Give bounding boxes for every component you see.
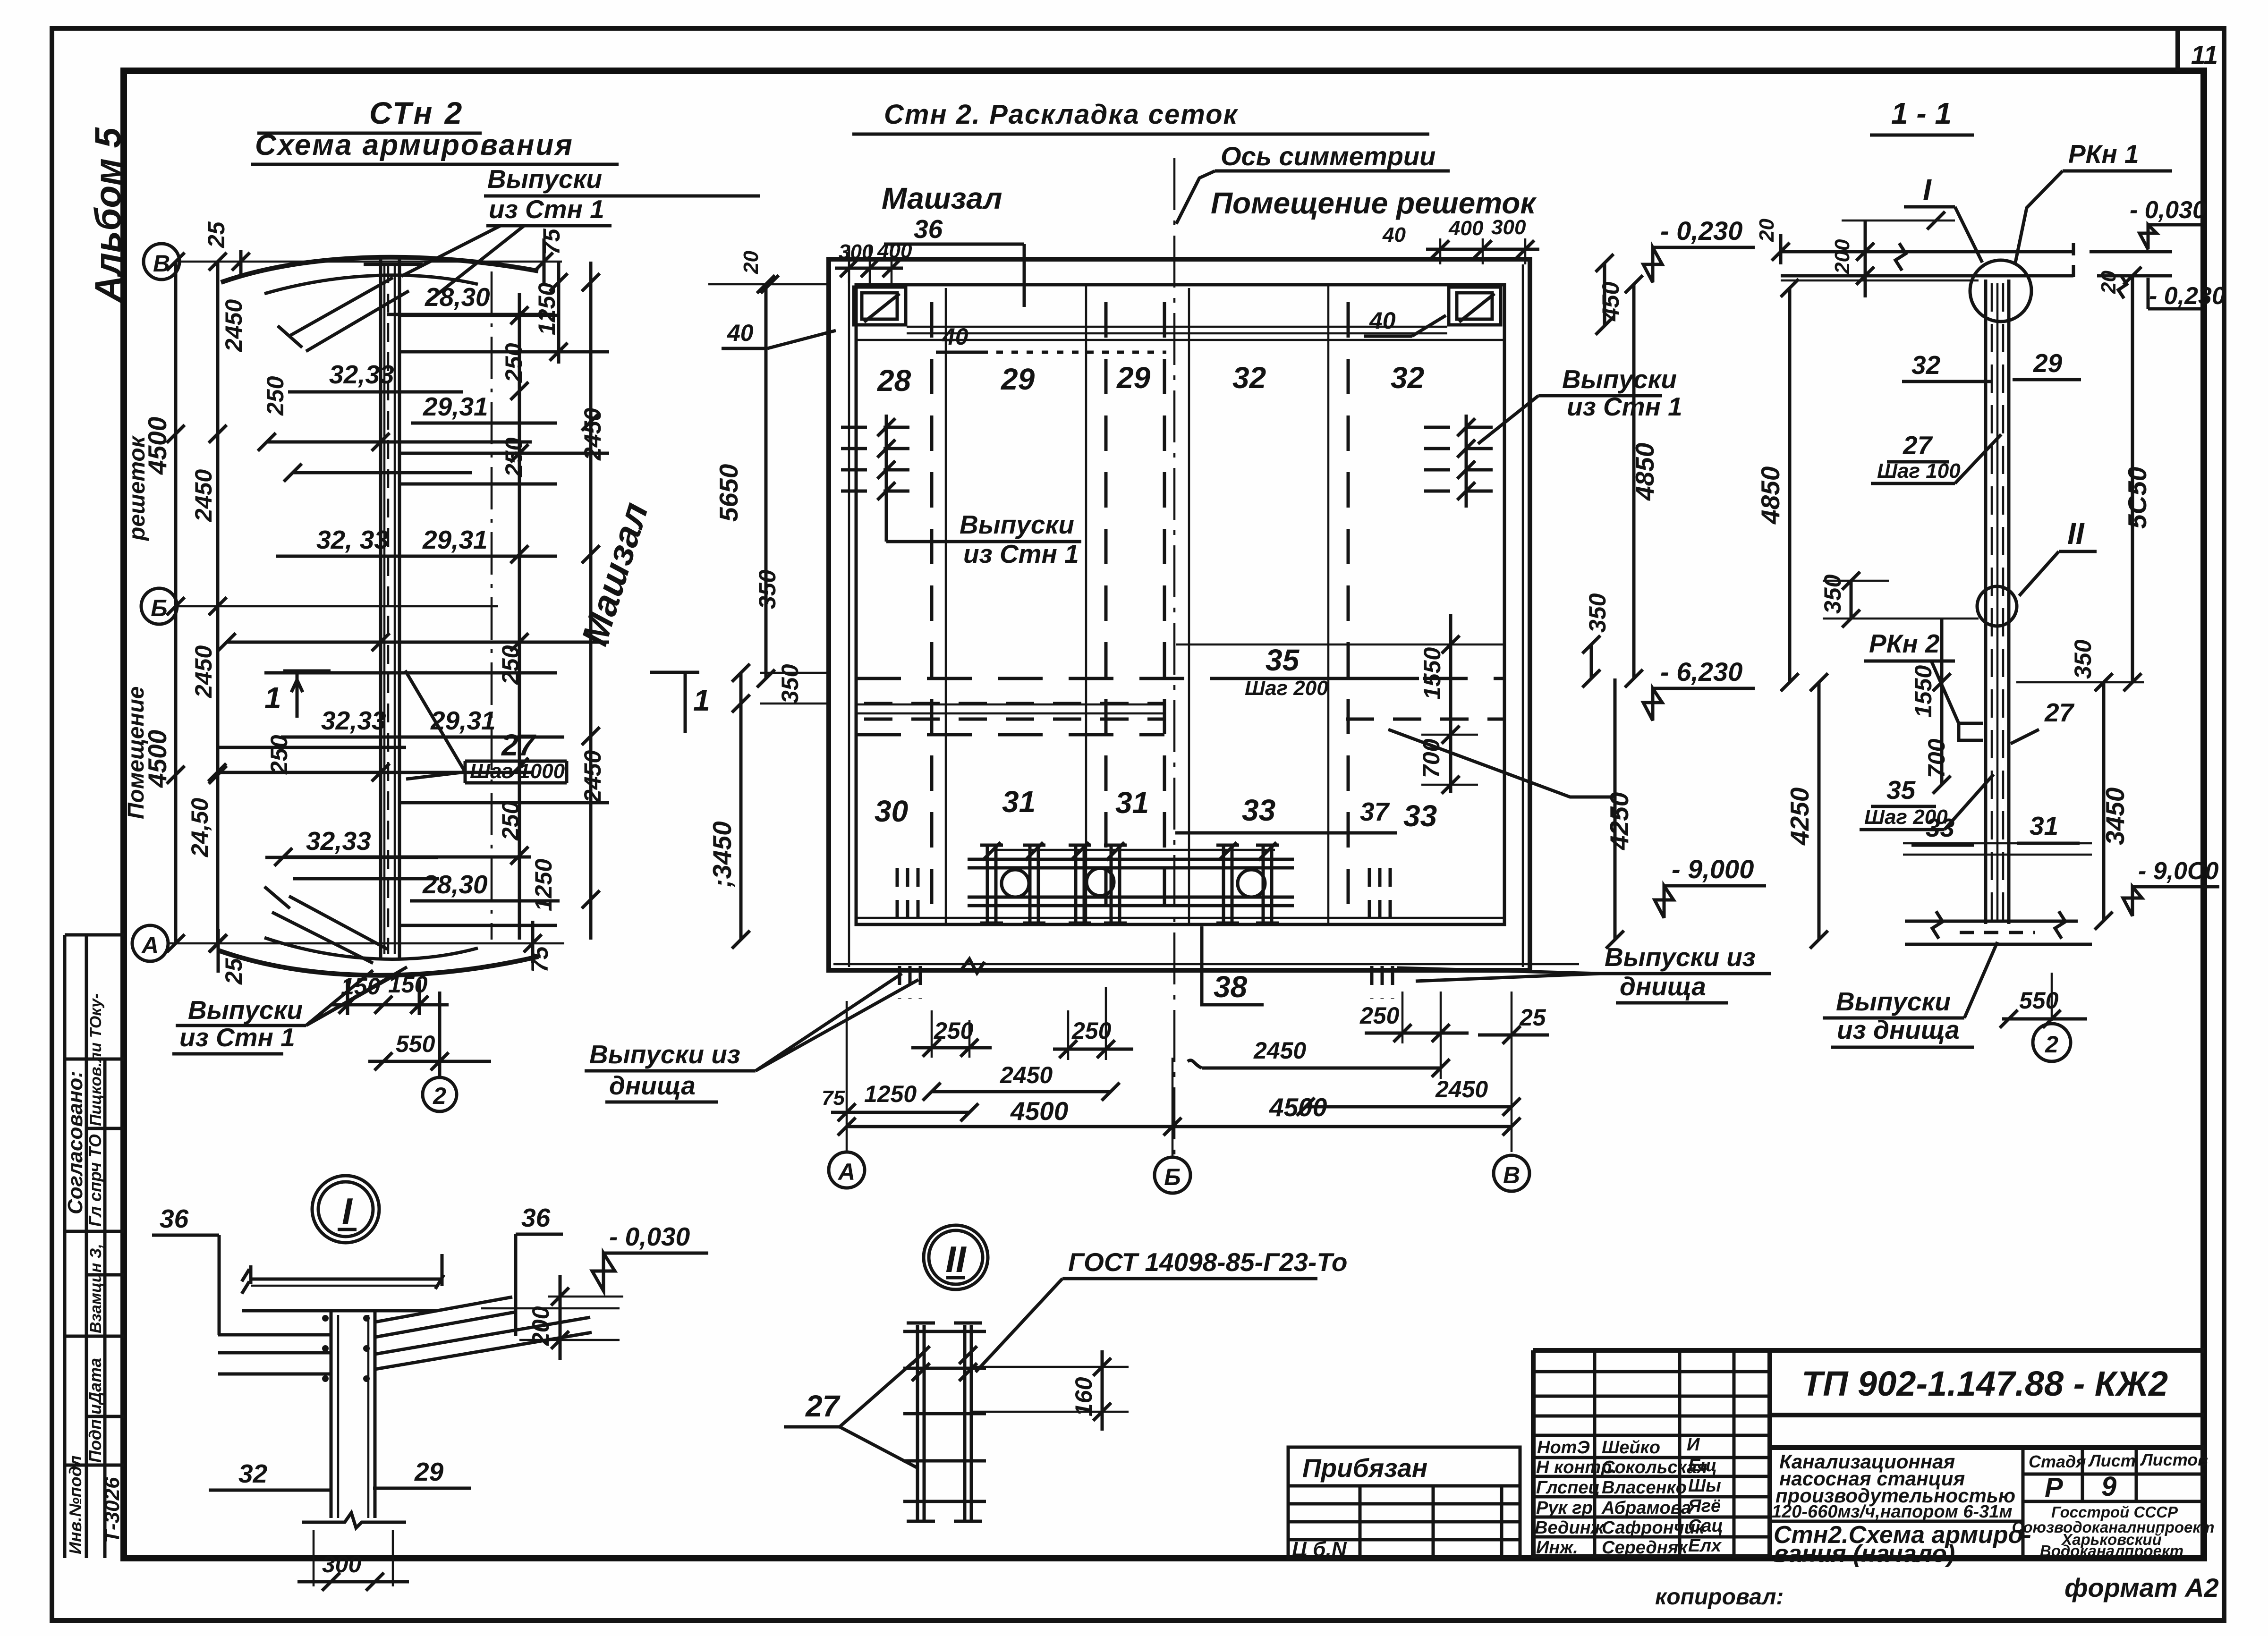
left dim chain 2450s	[187, 253, 247, 952]
svg-text:Инж.: Инж.	[1536, 1538, 1578, 1558]
right dim verticals	[519, 262, 591, 940]
svg-text:27: 27	[805, 1389, 841, 1423]
svg-text:Машзал: Машзал	[573, 498, 656, 650]
svg-text:- 9,000: - 9,000	[1672, 854, 1754, 884]
title plan view	[852, 99, 1429, 134]
svg-text:28: 28	[877, 364, 911, 398]
svg-text:9: 9	[2101, 1471, 2116, 1502]
svg-text:2450: 2450	[1435, 1076, 1488, 1102]
svg-text:25: 25	[1519, 1004, 1546, 1031]
svg-text:700: 700	[1923, 738, 1950, 778]
wall double line	[381, 257, 399, 958]
svg-text:I: I	[342, 1190, 353, 1232]
svg-text:Листов: Листов	[2140, 1450, 2208, 1469]
svg-text:Инв.№подл: Инв.№подл	[66, 1456, 85, 1554]
right chains	[1632, 284, 1636, 678]
center axis	[1173, 158, 1176, 1154]
1550 700 dims right inside	[1449, 614, 1453, 793]
signature table	[1595, 1350, 1734, 1558]
svg-text:вания (начало): вания (начало)	[1774, 1540, 1955, 1568]
stirrup pairs	[980, 845, 1279, 923]
svg-text:400: 400	[1448, 217, 1484, 240]
27 шаг 1000	[405, 670, 567, 783]
svg-text:Стн 2. Раскладка сеток: Стн 2. Раскладка сеток	[884, 99, 1239, 130]
svg-text:СТн 2: СТн 2	[369, 95, 464, 130]
svg-text:40: 40	[1369, 307, 1396, 334]
svg-text:35: 35	[1886, 775, 1916, 805]
break zigzag bottom	[961, 959, 985, 973]
svg-text:350: 350	[754, 569, 781, 609]
svg-text:2450: 2450	[1253, 1037, 1306, 1064]
svg-text:36: 36	[914, 214, 943, 244]
right-half interior wall line	[1176, 644, 1504, 646]
svg-text:копировал:: копировал:	[1655, 1585, 1784, 1610]
svg-text:4850: 4850	[1756, 466, 1785, 525]
svg-text:Власенко: Власенко	[1602, 1478, 1687, 1498]
svg-text:40: 40	[727, 320, 754, 346]
axis A circle	[132, 925, 168, 961]
privyazan table	[1288, 1447, 1520, 1561]
svg-text:Выпуски: Выпуски	[1836, 987, 1951, 1016]
svg-text:75: 75	[538, 228, 565, 255]
vypuski iz dnischa left	[585, 974, 918, 1102]
right slant haunch	[375, 1297, 592, 1369]
svg-text:4500: 4500	[1269, 1093, 1327, 1122]
svg-text:Рук гр: Рук гр	[1536, 1498, 1593, 1518]
svg-text:Ц б.N: Ц б.N	[1292, 1538, 1347, 1561]
svg-text:33: 33	[1926, 813, 1954, 842]
svg-text:Сац: Сац	[1688, 1516, 1723, 1536]
rebar bars	[903, 1323, 986, 1521]
title left view	[251, 95, 619, 164]
200 dim	[559, 1275, 562, 1360]
svg-text:Б: Б	[1164, 1164, 1181, 1190]
svg-text:250: 250	[262, 376, 289, 416]
svg-text:1250: 1250	[534, 283, 560, 335]
svg-text:Согласовано:: Согласовано:	[64, 1071, 87, 1214]
outer wall rect	[829, 259, 1530, 970]
svg-text:28,30: 28,30	[425, 282, 490, 312]
svg-text:250: 250	[1359, 1002, 1400, 1029]
svg-text:40: 40	[942, 323, 968, 350]
25 dim bottom	[209, 929, 247, 985]
svg-text:НотЭ: НотЭ	[1537, 1438, 1590, 1458]
svg-text:;3450: ;3450	[707, 821, 737, 888]
right reinf cluster	[1424, 415, 1504, 508]
svg-text:11: 11	[2191, 40, 2218, 69]
svg-text:Б: Б	[151, 595, 167, 621]
big cell TP	[1767, 1350, 1772, 1558]
svg-text:Шаг 1000: Шаг 1000	[470, 760, 565, 783]
svg-text:250: 250	[501, 343, 527, 383]
svg-text:20: 20	[739, 251, 763, 274]
svg-text:2: 2	[433, 1083, 446, 1109]
svg-text:В: В	[1503, 1162, 1520, 1188]
svg-text:Лист: Лист	[2088, 1451, 2136, 1470]
svg-text:Выпуски: Выпуски	[1562, 364, 1677, 394]
svg-text:- 0,230: - 0,230	[2149, 282, 2226, 310]
svg-text:Й: Й	[1687, 1433, 1700, 1455]
svg-text:Пицков.ли ТОку-: Пицков.ли ТОку-	[87, 993, 105, 1126]
vypuski iz dnischa right	[1397, 942, 1771, 1003]
svg-text:Схема армирования: Схема армирования	[255, 129, 574, 161]
description cell	[2022, 1448, 2025, 1558]
slab break marks	[242, 1254, 444, 1294]
svg-text:Ось симметрии: Ось симметрии	[1221, 141, 1436, 171]
svg-text:150: 150	[388, 971, 428, 998]
svg-text:Т-3026: Т-3026	[101, 1477, 124, 1543]
svg-text:32, 33: 32, 33	[316, 525, 389, 554]
left reinf cluster	[841, 415, 926, 542]
svg-text:5650: 5650	[714, 464, 743, 522]
svg-text:32: 32	[1911, 350, 1941, 380]
vypuski iz stn1 right label	[1478, 364, 1682, 444]
svg-text:ТП 902-1.147.88 - КЖ2: ТП 902-1.147.88 - КЖ2	[1801, 1364, 2168, 1403]
svg-text:450: 450	[1597, 281, 1624, 322]
svg-text:Ещ: Ещ	[1688, 1456, 1717, 1475]
svg-text:из Стн 1: из Стн 1	[963, 539, 1079, 568]
wall verticals	[331, 1311, 375, 1518]
mesh labels	[265, 282, 564, 901]
75 bottom right	[524, 921, 553, 973]
svg-text:29,31: 29,31	[423, 392, 488, 421]
svg-text:5С50: 5С50	[2123, 466, 2152, 529]
slab lines	[251, 1278, 442, 1281]
svg-text:27: 27	[501, 728, 537, 762]
svg-text:3450: 3450	[2100, 787, 2130, 845]
75 top right	[535, 228, 565, 283]
detail circle marker II	[924, 1225, 988, 1289]
svg-text:из Стн 1: из Стн 1	[1567, 392, 1682, 421]
bottom interior line	[856, 917, 1504, 919]
rebar dots	[322, 1315, 370, 1382]
svg-text:29: 29	[1116, 361, 1151, 395]
svg-text:В: В	[153, 250, 170, 277]
svg-text:250: 250	[266, 735, 292, 775]
svg-text:300: 300	[1491, 216, 1526, 239]
svg-text:днища: днища	[609, 1071, 696, 1100]
axis B circle	[144, 244, 179, 280]
svg-text:300: 300	[322, 1551, 362, 1577]
svg-text:24,50: 24,50	[187, 798, 213, 857]
svg-text:29,31: 29,31	[422, 525, 488, 554]
svg-text:37: 37	[1360, 797, 1390, 826]
svg-text:решеток: решеток	[125, 435, 150, 542]
svg-text:РКн 1: РКн 1	[2068, 139, 2139, 169]
inner wall face	[856, 285, 1504, 924]
svg-text:29: 29	[414, 1457, 444, 1486]
25 dim top	[203, 221, 250, 276]
bottom channel rails	[968, 842, 1294, 923]
svg-text:1: 1	[693, 683, 710, 717]
svg-text:4500: 4500	[1010, 1096, 1069, 1126]
svg-text:Подп иДата: Подп иДата	[85, 1358, 105, 1463]
svg-text:2450: 2450	[190, 469, 217, 522]
svg-text:РКн 2: РКн 2	[1869, 629, 1940, 658]
axis B2 circle	[141, 588, 177, 624]
svg-text:28,30: 28,30	[422, 870, 488, 899]
bottom bent bars	[264, 887, 387, 963]
top slab curves	[221, 257, 538, 282]
bottom slab curves	[217, 950, 538, 975]
svg-text:75: 75	[822, 1086, 845, 1110]
svg-text:Шаг 100: Шаг 100	[1877, 459, 1961, 483]
svg-text:Выпуски: Выпуски	[487, 164, 602, 194]
svg-text:36: 36	[160, 1204, 189, 1233]
detail circle II	[1977, 586, 2017, 626]
svg-text:Середняк: Середняк	[1602, 1538, 1688, 1558]
svg-text:Помещение решеток: Помещение решеток	[1211, 186, 1537, 220]
right chains	[2102, 682, 2106, 921]
svg-text:из Стн 1: из Стн 1	[489, 195, 604, 224]
svg-text:- 0,230: - 0,230	[1660, 216, 1742, 246]
svg-text:2450: 2450	[579, 750, 606, 803]
svg-text:4850: 4850	[1630, 442, 1659, 501]
33 31 labels bottom	[1903, 843, 2092, 855]
svg-text:32: 32	[1391, 361, 1424, 395]
svg-text:из Стн 1: из Стн 1	[179, 1023, 295, 1052]
circle 2	[2033, 1024, 2071, 1061]
350 small	[1850, 581, 1853, 619]
svg-text:160: 160	[1070, 1377, 1097, 1416]
svg-text:200: 200	[1831, 239, 1854, 274]
150 150 550 dims bottom	[331, 971, 491, 1077]
svg-text:20: 20	[2097, 271, 2120, 294]
svg-text:Помещение: Помещение	[124, 687, 149, 819]
svg-text:550: 550	[396, 1031, 435, 1057]
svg-text:формат А2: формат А2	[2064, 1573, 2219, 1602]
vypuski iz stn1 plan label	[886, 510, 1081, 568]
svg-text:- 9,0С0: - 9,0С0	[2138, 857, 2219, 885]
svg-text:1250: 1250	[864, 1081, 917, 1107]
RKn2 leader	[1388, 729, 1615, 797]
pipe circles	[1002, 870, 1029, 897]
svg-text:2: 2	[2045, 1031, 2058, 1058]
top slab	[1781, 250, 2172, 254]
left haunch lines	[218, 1335, 331, 1374]
svg-text:40: 40	[1382, 223, 1406, 246]
svg-text:32,33: 32,33	[321, 706, 386, 735]
wall	[1986, 280, 2009, 924]
svg-text:30: 30	[875, 794, 908, 828]
svg-text:4250: 4250	[1605, 792, 1634, 850]
svg-text:2450: 2450	[190, 645, 217, 698]
svg-text:32,33: 32,33	[306, 826, 371, 856]
svg-text:Шейко: Шейко	[1602, 1438, 1660, 1458]
svg-text:250: 250	[497, 645, 524, 685]
svg-text:Р: Р	[2045, 1472, 2063, 1503]
svg-text:Водоканалпроект: Водоканалпроект	[2040, 1542, 2183, 1560]
svg-text:31: 31	[2030, 811, 2058, 840]
svg-text:350: 350	[1584, 593, 1611, 633]
svg-text:36: 36	[521, 1203, 551, 1232]
svg-text:1550: 1550	[1419, 647, 1445, 700]
svg-text:35: 35	[1266, 643, 1300, 677]
svg-text:- 0,030: - 0,030	[609, 1222, 690, 1251]
svg-text:Выпуски: Выпуски	[960, 510, 1074, 539]
svg-text:днища: днища	[1620, 972, 1706, 1001]
svg-text:32,33: 32,33	[329, 360, 394, 389]
center dashdot	[491, 271, 493, 940]
svg-text:25: 25	[203, 221, 229, 248]
svg-text:Вединж: Вединж	[1535, 1518, 1605, 1538]
top wall interior lines	[856, 327, 1504, 340]
org cell	[2012, 1503, 2215, 1560]
axis circles bottom	[829, 1152, 865, 1188]
svg-text:250: 250	[497, 801, 524, 841]
svg-text:Шаг 200: Шаг 200	[1245, 677, 1328, 700]
window opening top-right	[1449, 287, 1501, 325]
interior vertical dashed/solid zone lines	[930, 302, 934, 916]
svg-text:350: 350	[2070, 639, 2096, 679]
svg-text:Выпуски: Выпуски	[188, 995, 303, 1025]
5650 chain	[764, 284, 768, 678]
svg-text:- 6,230: - 6,230	[1660, 657, 1742, 687]
svg-text:Альбом 5: Альбом 5	[87, 127, 128, 303]
svg-text:33: 33	[1403, 799, 1437, 833]
350/3450 chain	[739, 673, 743, 940]
svg-text:ГОСТ 14098-85-Г23-То: ГОСТ 14098-85-Г23-То	[1068, 1247, 1347, 1277]
bottom slab	[1905, 921, 2092, 944]
circle 2 bottom left view	[423, 1077, 457, 1111]
vypuski bottom label	[172, 967, 407, 1054]
wall bottom break	[302, 1513, 406, 1528]
svg-text:Абрамова: Абрамова	[1601, 1498, 1691, 1518]
axis B line	[179, 261, 562, 263]
album label	[87, 127, 128, 303]
svg-text:Машзал: Машзал	[882, 181, 1002, 215]
title section 1-1	[1870, 96, 1974, 135]
4250 chain	[1818, 682, 1821, 940]
svg-text:25: 25	[221, 958, 247, 985]
svg-text:20: 20	[1755, 219, 1778, 242]
svg-text:Выпуски из: Выпуски из	[589, 1040, 740, 1069]
left dim chain 4500s	[124, 253, 185, 952]
svg-text:32: 32	[238, 1459, 268, 1488]
detail circle marker I	[312, 1176, 379, 1243]
window opening top-left	[854, 287, 906, 325]
svg-text:1 - 1: 1 - 1	[1891, 96, 1952, 130]
svg-text:А: А	[837, 1159, 855, 1185]
top bent bars	[278, 278, 409, 351]
svg-text:из днища: из днища	[1837, 1015, 1960, 1044]
mesh rows right horizontals	[399, 315, 609, 925]
svg-text:120-660мз/ч,напором 6-31м: 120-660мз/ч,напором 6-31м	[1772, 1502, 2013, 1522]
4850 chain left	[1788, 288, 1792, 682]
svg-text:32: 32	[1232, 361, 1266, 395]
svg-text:1: 1	[264, 681, 281, 715]
svg-text:I: I	[1923, 173, 1932, 207]
svg-text:Гл спрч ТО: Гл спрч ТО	[85, 1134, 105, 1227]
svg-text:27: 27	[2044, 698, 2075, 727]
mid band dashes	[856, 677, 1504, 680]
svg-text:33: 33	[1242, 793, 1275, 827]
svg-text:II: II	[945, 1238, 967, 1280]
svg-text:Ягё: Ягё	[1688, 1496, 1721, 1516]
svg-text:1550: 1550	[1910, 665, 1937, 718]
svg-text:А: А	[141, 932, 159, 958]
svg-text:1250: 1250	[530, 859, 557, 911]
svg-text:2450: 2450	[1000, 1062, 1053, 1088]
svg-text:2450: 2450	[221, 299, 247, 352]
vypuski top label	[401, 164, 760, 302]
section mark 1 right	[650, 672, 710, 733]
svg-text:27: 27	[1903, 431, 1933, 460]
extra wall lines	[833, 264, 1579, 967]
stamp outline	[1533, 1350, 2204, 1558]
svg-text:31: 31	[1002, 785, 1036, 819]
svg-text:Прибязан: Прибязан	[1302, 1453, 1427, 1483]
bottom dashed clusters	[897, 868, 1393, 999]
svg-text:4250: 4250	[1785, 787, 1814, 846]
svg-text:Елх: Елх	[1688, 1536, 1722, 1556]
section mark 1 upper	[264, 671, 331, 718]
svg-text:Выпуски из: Выпуски из	[1605, 942, 1756, 972]
left horizontals	[217, 442, 532, 879]
svg-text:29: 29	[1001, 362, 1035, 396]
svg-text:II: II	[2067, 517, 2085, 551]
svg-text:- 0,030: - 0,030	[2130, 196, 2206, 224]
left margin table	[64, 935, 124, 1558]
svg-text:75: 75	[527, 946, 553, 973]
1550 700	[1940, 619, 1944, 785]
svg-text:31: 31	[1115, 786, 1149, 820]
sheet number box top right	[2178, 28, 2218, 71]
stage cells	[2023, 1448, 2204, 1501]
svg-text:350: 350	[777, 664, 803, 704]
svg-text:Взамцин З,: Взамцин З,	[87, 1244, 105, 1333]
svg-text:29: 29	[2033, 348, 2063, 378]
svg-text:Стадя: Стадя	[2029, 1452, 2086, 1471]
bottom dim chains	[822, 987, 1549, 1157]
svg-text:38: 38	[1214, 970, 1248, 1004]
detail circle I	[1970, 260, 2031, 322]
160 dim	[1101, 1350, 1104, 1431]
svg-text:Глспец: Глспец	[1536, 1478, 1600, 1498]
svg-text:Шы: Шы	[1688, 1476, 1721, 1496]
svg-text:400: 400	[877, 239, 912, 263]
